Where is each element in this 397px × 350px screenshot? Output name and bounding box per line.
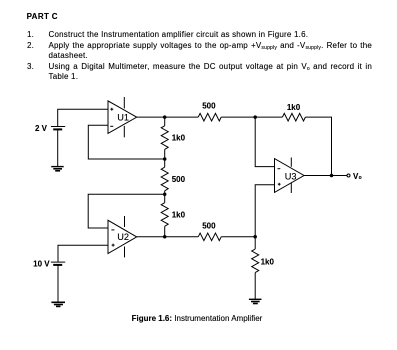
svg-text:U1: U1 bbox=[117, 112, 129, 122]
svg-text:2 V: 2 V bbox=[35, 124, 48, 133]
svg-text:U2: U2 bbox=[117, 232, 129, 242]
svg-text:1k0: 1k0 bbox=[261, 257, 275, 266]
svg-text:U3: U3 bbox=[285, 171, 297, 181]
svg-text:10 V: 10 V bbox=[33, 260, 50, 269]
svg-text:1k0: 1k0 bbox=[172, 210, 186, 219]
svg-text:o: o bbox=[359, 175, 362, 181]
svg-text:500: 500 bbox=[202, 101, 216, 110]
svg-text:500: 500 bbox=[172, 175, 186, 184]
svg-text:1k0: 1k0 bbox=[172, 134, 186, 143]
svg-text:1k0: 1k0 bbox=[287, 103, 301, 112]
svg-text:500: 500 bbox=[202, 222, 216, 231]
